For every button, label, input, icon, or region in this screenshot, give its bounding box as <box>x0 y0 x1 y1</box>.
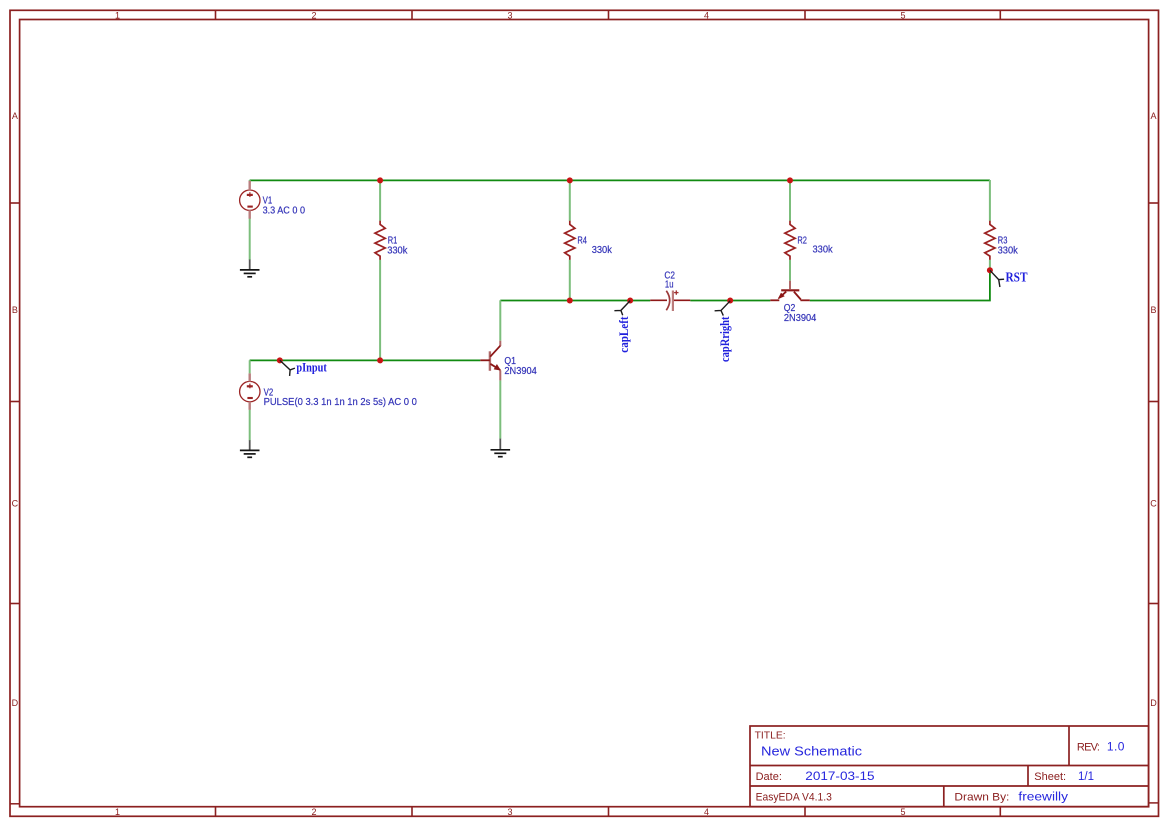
title block rev divider <box>1068 726 1070 766</box>
svg-text:3: 3 <box>507 10 512 20</box>
svg-text:capLeft: capLeft <box>617 316 631 353</box>
transistor Q1 <box>480 341 501 381</box>
svg-text:A: A <box>1150 111 1156 121</box>
junction dot capRight <box>727 298 733 304</box>
pin Q1 emitter wire green <box>499 380 501 438</box>
voltage source V2 <box>240 373 260 409</box>
svg-text:A: A <box>12 111 18 121</box>
title block sheet divider <box>1027 766 1029 787</box>
svg-text:capRright: capRright <box>718 316 732 362</box>
svg-text:D: D <box>1150 698 1157 708</box>
svg-text:C: C <box>1150 499 1157 509</box>
svg-text:1u: 1u <box>665 280 674 291</box>
pin R2 top green <box>789 180 791 221</box>
wire lower net pInput <box>250 359 481 361</box>
svg-text:RST: RST <box>1006 269 1028 284</box>
svg-text:R4: R4 <box>577 236 587 247</box>
resistor R3 <box>985 221 995 260</box>
svg-text:1.0: 1.0 <box>1107 739 1125 753</box>
pin V1 bottom green <box>249 218 251 260</box>
svg-text:330k: 330k <box>813 244 834 255</box>
svg-text:1/1: 1/1 <box>1078 771 1094 783</box>
pin V2 top green <box>249 360 251 373</box>
resistor R1 <box>375 221 385 260</box>
svg-text:1: 1 <box>115 807 120 817</box>
svg-text:3: 3 <box>507 807 512 817</box>
svg-text:Date:: Date: <box>756 771 782 783</box>
svg-text:2017-03-15: 2017-03-15 <box>805 771 874 783</box>
svg-text:C: C <box>12 499 19 509</box>
pin Q1 collector wire green <box>499 300 501 340</box>
pin R2 bottom green <box>789 260 791 281</box>
svg-text:2N3904: 2N3904 <box>504 366 537 377</box>
svg-text:Drawn By:: Drawn By: <box>954 791 1009 803</box>
pin R1 top green <box>379 180 381 221</box>
wire middle net capRight segment <box>690 300 770 302</box>
svg-text:1: 1 <box>115 10 120 20</box>
wire middle net capLeft segment <box>500 300 650 302</box>
svg-text:New Schematic: New Schematic <box>761 743 863 758</box>
svg-text:3.3 AC 0 0: 3.3 AC 0 0 <box>263 206 306 217</box>
svg-text:pInput: pInput <box>296 360 327 374</box>
junction dot R4 bottom <box>567 298 573 304</box>
svg-text:D: D <box>12 698 19 708</box>
svg-text:2: 2 <box>311 807 316 817</box>
svg-text:EasyEDA V4.1.3: EasyEDA V4.1.3 <box>756 791 832 803</box>
net flag RST <box>990 270 1004 287</box>
svg-text:PULSE(0 3.3 1n 1n 1n 2s 5s) AC: PULSE(0 3.3 1n 1n 1n 2s 5s) AC 0 0 <box>264 397 418 408</box>
pin R4 top green <box>569 180 571 221</box>
junction dot R1 top <box>377 177 383 183</box>
pin R1 bottom green <box>379 260 381 360</box>
svg-text:4: 4 <box>704 807 709 817</box>
svg-text:330k: 330k <box>998 246 1019 257</box>
junction dot RST <box>987 267 993 273</box>
title block row line 2 <box>750 785 1149 787</box>
net flag pInput <box>280 360 295 376</box>
svg-text:REV:: REV: <box>1077 741 1100 753</box>
svg-text:2N3904: 2N3904 <box>784 313 817 324</box>
svg-text:freewilly: freewilly <box>1018 791 1068 803</box>
svg-text:2: 2 <box>311 10 316 20</box>
svg-text:B: B <box>12 305 18 315</box>
svg-text:4: 4 <box>704 10 709 20</box>
title block drawnby divider <box>943 786 945 807</box>
ground under V1 <box>240 260 260 277</box>
svg-text:5: 5 <box>900 10 905 20</box>
svg-text:330k: 330k <box>387 246 408 257</box>
svg-text:Sheet:: Sheet: <box>1034 771 1066 783</box>
title block row line 1 <box>750 765 1149 767</box>
voltage source V1 <box>240 181 260 219</box>
wire top net VCC <box>250 179 990 181</box>
junction dot pInput <box>277 357 283 363</box>
capacitor C2 <box>650 290 690 311</box>
junction dot R1 bottom <box>377 357 383 363</box>
junction dot R4 top <box>567 177 573 183</box>
transistor Q2 <box>770 281 810 301</box>
net flag capLeft <box>614 301 630 316</box>
pin V1 top green <box>249 180 251 182</box>
title block border <box>750 726 1149 807</box>
svg-text:B: B <box>1150 305 1156 315</box>
ground under Q1 <box>491 439 511 457</box>
svg-text:330k: 330k <box>592 245 613 256</box>
svg-text:TITLE:: TITLE: <box>755 731 786 742</box>
pin R4 bottom green <box>569 260 571 300</box>
resistor R2 <box>785 221 795 260</box>
junction dot capLeft <box>627 298 633 304</box>
junction dot R2 top <box>787 177 793 183</box>
resistor R4 <box>565 221 575 260</box>
net flag capRright <box>715 301 731 316</box>
pin V2 bottom green <box>249 410 251 441</box>
svg-text:R2: R2 <box>797 236 807 247</box>
pin R3 bottom green <box>989 260 991 270</box>
wire middle net RST segment <box>810 270 990 300</box>
pin R3 top green <box>989 180 991 221</box>
svg-text:5: 5 <box>900 807 905 817</box>
ground under V2 <box>240 440 260 457</box>
